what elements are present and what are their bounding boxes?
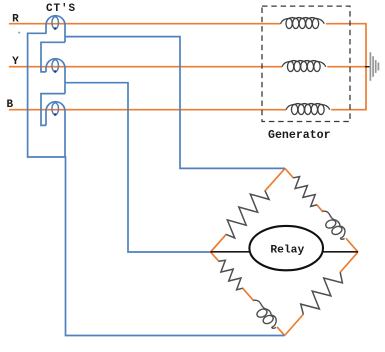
svg-text:B: B (6, 99, 13, 111)
svg-text:Generator: Generator (268, 129, 331, 142)
svg-text:Relay: Relay (270, 244, 304, 256)
svg-text:CT'S: CT'S (46, 3, 76, 15)
svg-text:Y: Y (12, 56, 19, 68)
svg-text:R: R (12, 14, 19, 26)
